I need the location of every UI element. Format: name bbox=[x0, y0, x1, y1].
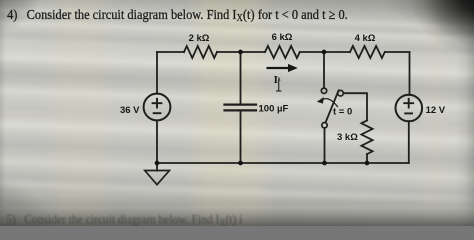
ground stem bbox=[156, 163, 158, 171]
resistor 2 kOhm bbox=[184, 46, 217, 58]
switch t=0 lever bbox=[326, 90, 339, 122]
resistor 3 kOhm vertical bbox=[361, 121, 372, 155]
small probe mark below Ix bbox=[276, 80, 281, 92]
svg-text:4) Consider the circuit diag: 4) Consider the circuit diagram below. F… bbox=[7, 6, 348, 24]
svg-text:12 V: 12 V bbox=[426, 105, 446, 116]
switch t=0 right contact bbox=[338, 90, 344, 96]
bottom partial text of problem 5 bbox=[6, 212, 243, 228]
node dot capacitor bottom bbox=[238, 161, 243, 166]
wire top segment right bbox=[385, 51, 410, 53]
wire from right contact to 3k branch bbox=[343, 93, 367, 120]
wire left vertical lower bbox=[156, 120, 158, 163]
node dot B (6k/4k junction, switch top) bbox=[322, 50, 327, 55]
wire bottom bbox=[157, 162, 409, 164]
wire right vertical lower bbox=[408, 121, 410, 163]
switch t=0 lower terminal bbox=[322, 123, 327, 128]
svg-text:100 µF: 100 µF bbox=[259, 104, 289, 115]
wire switch branch lower bbox=[324, 128, 326, 163]
ground triangle bbox=[145, 171, 170, 185]
voltage source 12 V circle bbox=[396, 95, 423, 122]
plus sign of 36 V source bbox=[152, 98, 163, 109]
wire capacitor branch upper bbox=[240, 52, 242, 104]
wire capacitor branch lower bbox=[240, 111, 242, 163]
wire right vertical upper bbox=[409, 52, 411, 95]
node dot switch bottom bbox=[322, 161, 327, 166]
wire top segment left bbox=[157, 51, 184, 53]
resistor 4 kOhm bbox=[350, 46, 385, 58]
node dot A (2k/6k junction, capacitor top) bbox=[238, 50, 243, 55]
svg-text:3 kΩ: 3 kΩ bbox=[337, 132, 358, 143]
title text bbox=[7, 6, 348, 24]
wire switch branch upper bbox=[323, 52, 325, 88]
minus sign of 36 V source bbox=[153, 112, 162, 114]
svg-text:2 kΩ: 2 kΩ bbox=[189, 33, 210, 44]
wire 3k to bottom bbox=[366, 154, 368, 163]
capacitor 100 uF plates bbox=[225, 105, 257, 111]
wire top-left vertical bbox=[156, 52, 158, 94]
node dot ground bbox=[155, 161, 160, 166]
svg-text:6 kΩ: 6 kΩ bbox=[272, 32, 293, 43]
plus sign of 12 V source bbox=[403, 98, 414, 109]
svg-text:4 kΩ: 4 kΩ bbox=[355, 33, 376, 44]
switch action curved arrow bbox=[317, 97, 338, 107]
svg-text:5) Consider the circuit diag: 5) Consider the circuit diagram below. F… bbox=[6, 212, 243, 226]
wire top segment between 6k and 4k bbox=[300, 51, 350, 53]
switch t=0 upper-left contact bbox=[321, 88, 326, 93]
minus sign of 12 V source bbox=[404, 112, 413, 114]
wire top segment between 2k and 6k bbox=[217, 51, 265, 53]
current arrow Ix bbox=[267, 64, 298, 72]
resistor 6 kOhm bbox=[265, 46, 300, 58]
svg-text:36 V: 36 V bbox=[120, 105, 140, 116]
node dot 3k bottom bbox=[365, 161, 370, 166]
svg-text:t = 0: t = 0 bbox=[333, 107, 352, 118]
voltage source 36 V circle bbox=[144, 94, 171, 121]
